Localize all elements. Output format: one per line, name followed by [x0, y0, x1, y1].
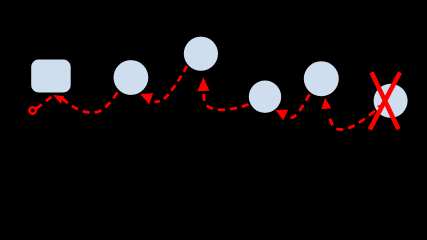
node: circle 3 — [184, 37, 218, 71]
arrowhead at circle 4 — [276, 110, 289, 121]
node: circle 2 — [113, 60, 148, 95]
arrowhead into circle 3 — [197, 77, 209, 91]
arrowhead into circle 5 — [321, 98, 331, 110]
small arrowhead near circle 6 — [377, 104, 383, 110]
wire: dashed connector circle3 to circle2 — [155, 66, 188, 102]
terminal ring (oval line end) — [29, 107, 35, 113]
X cross line 1 over circle 6 — [372, 72, 399, 129]
node: circle 4 — [249, 81, 281, 113]
node: circle 6 (crossed out) — [374, 84, 408, 118]
node: circle 5 — [304, 61, 339, 96]
node: rounded square (start state) — [31, 60, 70, 93]
wire: dashed connector circle2 to square — [62, 93, 118, 113]
small dash near circle 6 — [371, 111, 375, 114]
wire: dashed connector circle5 to circle4 — [291, 95, 310, 118]
wire: dashed connector square to terminal ring — [36, 96, 52, 109]
wire: dashed connector circle4 to circle3 — [204, 92, 249, 110]
arrowhead into square — [53, 95, 64, 104]
arrowhead at circle 2 — [140, 93, 153, 104]
wire: dashed connector circle6 to circle5 — [329, 112, 375, 130]
X cross line 2 over circle 6 — [370, 72, 400, 129]
